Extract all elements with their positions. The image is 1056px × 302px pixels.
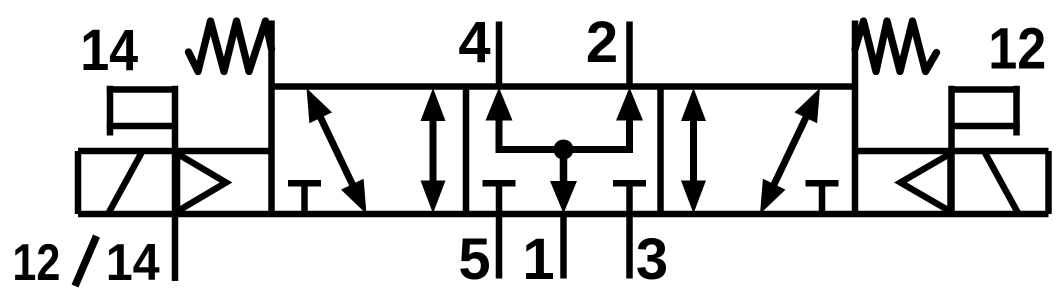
wire: valve bottom edge (runs under actuators and body) (78, 211, 1049, 218)
svg-text:14: 14 (80, 18, 138, 83)
pilot port bracket 14 - outer bar (107, 86, 114, 136)
solenoid coil box left (outline) (78, 151, 272, 214)
wire: valve body top edge (272, 83, 856, 90)
flow arrow to port 4 (middle box) (486, 88, 513, 121)
pilot port bracket 12 - top rung (952, 86, 1020, 93)
port line 2 (626, 22, 633, 87)
port label 12/14 slash (75, 236, 97, 286)
solenoid coil diagonal left (108, 151, 143, 214)
return spring right (855, 21, 937, 72)
svg-text:2: 2 (586, 10, 618, 75)
flow arrow to port 2 (middle box) (616, 88, 643, 121)
pilot port bracket 14 - top rung (107, 86, 175, 93)
blocked port T (left box, port 5) (288, 183, 321, 214)
svg-text:4: 4 (458, 10, 490, 75)
junction dot (node at port 1 branch) (554, 140, 574, 160)
svg-text:12: 12 (12, 234, 60, 292)
flow path arrow 1-4 (left box diagonal) (307, 88, 367, 214)
pilot triangle left (177, 154, 226, 212)
port line 3 (626, 214, 633, 279)
wire: body left edge / spring anchor bar (268, 21, 275, 215)
blocked port T (middle box, port 3) (613, 183, 646, 214)
return spring left (189, 21, 272, 72)
port line 4 (496, 22, 503, 87)
svg-text:14: 14 (106, 234, 160, 292)
wire: middle box connector with stems (499, 117, 630, 150)
svg-text:3: 3 (636, 227, 668, 292)
flow arrow to port 1 (middle box, down) (550, 150, 577, 214)
wire: right actuator divider (948, 86, 955, 214)
flow path arrow 2-3 (left box vertical) (421, 88, 446, 214)
solenoid coil box right (outline) (855, 151, 1049, 214)
blocked port T (right box, port 3) (806, 183, 839, 214)
pilot triangle right (901, 154, 951, 212)
wire: body divider right (657, 87, 664, 215)
pilot port bracket 14 - bottom rung (107, 123, 175, 130)
flow path arrow 4-5 (right box vertical) (681, 88, 706, 214)
port line 5 (496, 214, 503, 279)
pilot port bracket 12 - outer bar (1013, 86, 1020, 136)
svg-text:12: 12 (988, 17, 1046, 82)
wire: body right edge / spring anchor bar (852, 21, 859, 215)
wire: left actuator divider / pilot line 12-14 (172, 86, 179, 281)
pilot port bracket 12 - bottom rung (952, 123, 1020, 130)
port line 1 (560, 214, 567, 279)
wire: body divider left (463, 87, 470, 215)
blocked port T (middle box, port 5) (483, 183, 516, 214)
svg-text:5: 5 (458, 227, 490, 292)
svg-text:1: 1 (522, 227, 554, 292)
flow path arrow 1-2 (right box diagonal) (760, 88, 820, 214)
solenoid coil diagonal right (984, 151, 1019, 214)
